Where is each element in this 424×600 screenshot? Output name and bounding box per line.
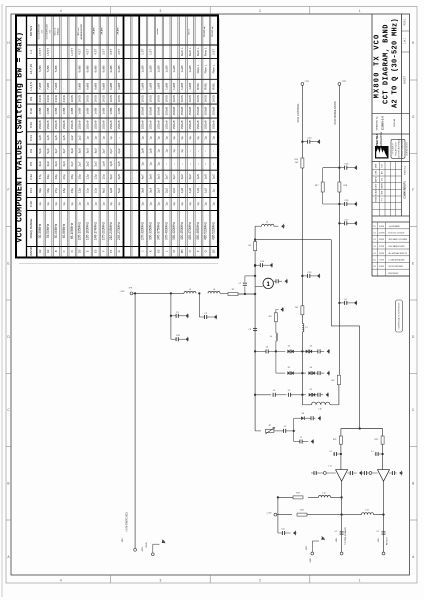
svg-text:S.W: S.W <box>382 164 384 168</box>
svg-text:1K05: 1K05 <box>172 95 176 103</box>
svg-text:Rem L: Rem L <box>188 47 192 56</box>
svg-text:R68L: R68L <box>204 82 208 90</box>
svg-text:1p2: 1p2 <box>78 135 82 140</box>
svg-text:270-320MHz: 270-320MHz <box>141 222 145 240</box>
svg-text:485-520MHz: 485-520MHz <box>204 222 208 240</box>
svg-text:ISSUE: ISSUE <box>376 196 378 202</box>
svg-text:L3,4,5: L3,4,5 <box>29 82 33 91</box>
svg-text:1p: 1p <box>62 202 66 206</box>
svg-text:4p7: 4p7 <box>62 148 66 153</box>
svg-text:15Dx8: 15Dx8 <box>149 120 153 129</box>
svg-text:1u5B: 1u5B <box>156 83 160 90</box>
svg-text:--: -- <box>196 150 200 152</box>
svg-text:Rem L: Rem L <box>204 64 208 73</box>
svg-text:1p5: 1p5 <box>204 174 208 179</box>
svg-text:L1 VALUES ADDED: L1 VALUES ADDED <box>389 259 406 262</box>
svg-text:39p: 39p <box>38 188 42 193</box>
svg-text:M.L: M.L <box>382 178 384 181</box>
svg-text:Rem L: Rem L <box>196 47 200 56</box>
svg-text:C6: C6 <box>273 390 275 392</box>
svg-text:1n5B: 1n5B <box>54 108 58 115</box>
svg-text:D5: D5 <box>78 249 82 253</box>
svg-text:ALUMINIUM BKT: ALUMINIUM BKT <box>80 23 83 39</box>
svg-text:1p2: 1p2 <box>70 135 74 140</box>
svg-text:RF OUT: RF OUT <box>387 536 389 545</box>
svg-text:C18: C18 <box>29 201 33 207</box>
svg-text:Q5: Q5 <box>212 249 216 253</box>
svg-text:3p3: 3p3 <box>149 188 153 193</box>
svg-text:1p2: 1p2 <box>204 188 208 193</box>
svg-text:C3590 REV.P1: C3590 REV.P1 <box>402 181 406 199</box>
svg-text:1u2B: 1u2B <box>180 65 184 72</box>
svg-text:1n5B: 1n5B <box>101 108 105 115</box>
svg-text:SPECTRA: SPECTRA <box>375 133 379 148</box>
svg-text:VCO CONTROL: VCO CONTROL <box>296 103 300 123</box>
svg-text:2p2: 2p2 <box>86 161 90 166</box>
svg-text:D4: D4 <box>310 367 312 369</box>
svg-text:1p8: 1p8 <box>109 161 113 166</box>
svg-text:22p: 22p <box>62 174 66 179</box>
svg-text:3p3: 3p3 <box>54 161 58 166</box>
svg-text:2/9/98: 2/9/98 <box>379 253 384 255</box>
svg-text:150xB: 150xB <box>212 107 216 116</box>
svg-text:15Dx8: 15Dx8 <box>204 120 208 129</box>
svg-text:L1: L1 <box>29 50 33 54</box>
svg-text:1p5: 1p5 <box>149 148 153 153</box>
svg-text:DRN: DRN <box>376 163 378 168</box>
svg-text:15Dx8: 15Dx8 <box>141 120 145 129</box>
svg-text:2p7: 2p7 <box>70 161 74 166</box>
svg-text:--: -- <box>204 150 208 152</box>
svg-text:6u8B: 6u8B <box>117 65 121 72</box>
svg-text:3p9: 3p9 <box>46 161 50 166</box>
svg-text:D3: D3 <box>288 367 290 369</box>
svg-text:1p5: 1p5 <box>54 135 58 140</box>
svg-text:REV 1: REV 1 <box>404 18 407 26</box>
svg-text:1p: 1p <box>86 136 90 140</box>
svg-text:30-39MHz: 30-39MHz <box>38 223 42 238</box>
svg-text:7u5B: 7u5B <box>38 83 42 90</box>
svg-text:1p: 1p <box>188 136 192 140</box>
svg-text:C13=3p9 R11,R1: C13=3p9 R11,R1 <box>47 23 49 39</box>
svg-text:Rem L: Rem L <box>196 64 200 73</box>
svg-text:33p: 33p <box>46 188 50 193</box>
svg-text:--: -- <box>164 163 168 165</box>
svg-text:1n5B: 1n5B <box>70 108 74 115</box>
svg-text:450-485MHz: 450-485MHz <box>196 222 200 240</box>
svg-text:NOTES: NOTES <box>29 26 33 36</box>
svg-text:39-50MHz: 39-50MHz <box>46 223 50 238</box>
svg-text:2p7: 2p7 <box>156 188 160 193</box>
svg-text:#P51: #P51 <box>378 538 380 542</box>
svg-text:15Dx8: 15Dx8 <box>78 120 82 129</box>
svg-text:10p: 10p <box>93 188 97 193</box>
svg-text:1n5B: 1n5B <box>109 108 113 115</box>
svg-text:2p7: 2p7 <box>109 148 113 153</box>
svg-text:66-88MHz: 66-88MHz <box>62 223 66 238</box>
svg-text:6u8B: 6u8B <box>86 83 90 90</box>
svg-text:3p9: 3p9 <box>141 188 145 193</box>
svg-text:425-470MHz: 425-470MHz <box>188 222 192 240</box>
svg-text:1p: 1p <box>156 162 160 166</box>
svg-text:--: -- <box>188 150 192 152</box>
svg-text:Rem L: Rem L <box>204 47 208 56</box>
svg-text:1K05: 1K05 <box>212 95 216 103</box>
svg-text:0.1: 0.1 <box>329 451 332 453</box>
svg-text:1K05: 1K05 <box>101 95 105 103</box>
svg-text:1p: 1p <box>109 136 113 140</box>
svg-text:2p2: 2p2 <box>164 188 168 193</box>
svg-text:3p9: 3p9 <box>38 161 42 166</box>
svg-text:4.5T: 4.5T <box>93 49 97 55</box>
svg-text:L5.5T: L5.5T <box>46 48 50 56</box>
svg-text:1n5B: 1n5B <box>117 108 121 115</box>
svg-text:135-160MHz: 135-160MHz <box>86 222 90 240</box>
svg-text:C5: C5 <box>29 162 33 166</box>
svg-text:R11,R5 adj: R11,R5 adj <box>204 26 206 36</box>
svg-text:GND: GND <box>146 542 148 547</box>
svg-text:3p9: 3p9 <box>70 148 74 153</box>
svg-text:300-335MHz: 300-335MHz <box>149 222 153 240</box>
svg-text:1p: 1p <box>196 136 200 140</box>
svg-text:1p: 1p <box>156 149 160 153</box>
svg-text:0.1: 0.1 <box>377 531 380 533</box>
svg-text:1u5B: 1u5B <box>141 83 145 90</box>
svg-text:88-108MHz: 88-108MHz <box>70 222 74 239</box>
svg-text:6u8B: 6u8B <box>109 65 113 72</box>
svg-text:1n5B: 1n5B <box>46 108 50 115</box>
svg-text:148-174MHz: 148-174MHz <box>93 222 97 240</box>
svg-text:D1: D1 <box>288 346 290 348</box>
svg-text:210R: 210R <box>46 94 50 102</box>
svg-text:15Dx8: 15Dx8 <box>101 120 105 129</box>
svg-text:15p: 15p <box>70 188 74 193</box>
svg-text:6u8B: 6u8B <box>109 83 113 90</box>
svg-text:15Dx8: 15Dx8 <box>212 120 216 129</box>
svg-text:3p9: 3p9 <box>78 148 82 153</box>
svg-text:1st RELEASE: 1st RELEASE <box>389 225 401 228</box>
svg-text:12p: 12p <box>78 188 82 193</box>
svg-text:1u5B: 1u5B <box>188 83 192 90</box>
svg-text:1p: 1p <box>46 202 50 206</box>
svg-text:8p2: 8p2 <box>101 188 105 193</box>
svg-text:6u8B: 6u8B <box>117 83 121 90</box>
svg-text:1u5B: 1u5B <box>149 83 153 90</box>
svg-text:1p: 1p <box>109 202 113 206</box>
svg-text:1p: 1p <box>172 149 176 153</box>
svg-text:G: G <box>117 250 121 252</box>
svg-text:3: 3 <box>160 9 162 13</box>
svg-text:1p: 1p <box>180 136 184 140</box>
svg-text:Same as: Same as <box>54 28 56 36</box>
svg-text:#P41: #P41 <box>336 538 338 542</box>
svg-text:--: -- <box>172 163 176 165</box>
svg-text:3.5T: 3.5T <box>117 49 121 55</box>
svg-text:210-245MHz: 210-245MHz <box>109 222 113 240</box>
svg-text:1p: 1p <box>86 202 90 206</box>
svg-text:+7.4V: +7.4V <box>266 513 272 515</box>
svg-text:1p2: 1p2 <box>212 174 216 179</box>
svg-text:C22: C22 <box>281 528 284 530</box>
svg-text:1p: 1p <box>93 136 97 140</box>
svg-text:R68L: R68L <box>196 82 200 90</box>
svg-text:C5: C5 <box>300 437 302 439</box>
svg-text:P: P <box>196 250 200 252</box>
svg-text:ECN 14 4 14 35309: ECN 14 4 14 35309 <box>389 233 405 235</box>
svg-text:--: -- <box>196 163 200 165</box>
svg-text:4p7: 4p7 <box>54 148 58 153</box>
svg-text:1n5B: 1n5B <box>93 108 97 115</box>
svg-text:1p: 1p <box>180 149 184 153</box>
svg-text:1p: 1p <box>212 136 216 140</box>
svg-text:1u2B: 1u2B <box>188 65 192 72</box>
svg-text:3/6/98: 3/6/98 <box>379 239 384 241</box>
svg-text:DRAWING No.: DRAWING No. <box>376 115 379 130</box>
svg-text:F5: F5 <box>109 249 113 253</box>
svg-text:1p: 1p <box>164 136 168 140</box>
svg-text:1p: 1p <box>38 202 42 206</box>
svg-text:2p7: 2p7 <box>78 161 82 166</box>
svg-text:+7.4V SWITCHED: +7.4V SWITCHED <box>126 512 129 532</box>
svg-text:1p5: 1p5 <box>62 135 66 140</box>
svg-text:1p5: 1p5 <box>196 188 200 193</box>
svg-text:1p5: 1p5 <box>117 161 121 166</box>
svg-text:A2 TO Q (30-520 MHz): A2 TO Q (30-520 MHz) <box>391 18 399 108</box>
svg-text:1p: 1p <box>78 202 82 206</box>
svg-text:C14: C14 <box>29 135 33 141</box>
svg-text:15Dx8: 15Dx8 <box>86 120 90 129</box>
svg-text:1p8: 1p8 <box>180 188 184 193</box>
svg-text:Rem L: Rem L <box>188 28 190 35</box>
svg-text:33p: 33p <box>54 174 58 179</box>
svg-text:E: E <box>7 262 9 266</box>
svg-text:--: -- <box>117 137 121 139</box>
svg-text:MX800 TX VCO: MX800 TX VCO <box>373 34 381 99</box>
svg-text:C13=3p9 R11,R1: C13=3p9 R11,R1 <box>39 23 41 39</box>
svg-text:C3590-1-0: C3590-1-0 <box>381 116 385 131</box>
svg-text:1K05: 1K05 <box>141 95 145 103</box>
svg-text:1K05: 1K05 <box>196 95 200 103</box>
svg-text:1K05: 1K05 <box>109 95 113 103</box>
svg-text:B: B <box>7 482 9 486</box>
svg-text:4: 4 <box>60 579 62 583</box>
svg-text:#TP2: #TP2 <box>342 81 347 83</box>
svg-text:A3: A3 <box>46 249 50 253</box>
svg-text:--: -- <box>212 150 216 152</box>
svg-text:1p: 1p <box>212 189 216 193</box>
svg-text:4: 4 <box>60 9 62 13</box>
svg-text:395-420MHz: 395-420MHz <box>172 222 176 240</box>
svg-text:2.5T: 2.5T <box>212 49 216 55</box>
svg-text:5p6: 5p6 <box>38 148 42 153</box>
svg-text:SIZE A4: SIZE A4 <box>393 118 396 127</box>
svg-text:50-66MHz: 50-66MHz <box>54 223 58 238</box>
svg-text:3.5T: 3.5T <box>109 49 113 55</box>
svg-text:1: 1 <box>359 579 361 583</box>
svg-text:1K05: 1K05 <box>204 95 208 103</box>
svg-text:C19: C19 <box>29 108 33 114</box>
svg-text:1p: 1p <box>117 202 121 206</box>
svg-text:B Band: B Band <box>57 28 59 35</box>
svg-text:6p8: 6p8 <box>117 174 121 179</box>
svg-text:3.5T: 3.5T <box>101 49 105 55</box>
svg-text:150xB: 150xB <box>172 107 176 116</box>
svg-text:7/1/99: 7/1/99 <box>379 260 384 262</box>
svg-text:MIDLAND WEST: MIDLAND WEST <box>395 141 398 156</box>
svg-text:1p: 1p <box>149 162 153 166</box>
svg-text:--/PLATE: --/PLATE <box>101 27 104 36</box>
svg-text:12p: 12p <box>86 174 90 179</box>
svg-text:12p: 12p <box>93 174 97 179</box>
svg-text:R3: R3 <box>29 96 33 100</box>
svg-text:4/4/98: 4/4/98 <box>382 183 384 188</box>
svg-text:K: K <box>149 250 153 252</box>
svg-text:6u8B: 6u8B <box>93 65 97 72</box>
svg-text:15Dx8: 15Dx8 <box>70 120 74 129</box>
svg-text:1p: 1p <box>188 202 192 206</box>
svg-text:15Dx8: 15Dx8 <box>188 120 192 129</box>
svg-text:10p: 10p <box>101 174 105 179</box>
svg-text:1n5B: 1n5B <box>78 108 82 115</box>
svg-text:WESTERN AUSTRALIA: WESTERN AUSTRALIA <box>398 138 401 158</box>
svg-text:3: 3 <box>160 579 162 583</box>
svg-text:TX PRE-SCALER: TX PRE-SCALER <box>344 527 347 545</box>
svg-text:3p3: 3p3 <box>156 174 160 179</box>
svg-text:B: B <box>54 250 58 252</box>
svg-text:1p8: 1p8 <box>46 135 50 140</box>
svg-text:6u8B: 6u8B <box>86 65 90 72</box>
svg-text:6u8B: 6u8B <box>93 83 97 90</box>
svg-text:345-375MHz: 345-375MHz <box>156 222 160 240</box>
svg-text:1p8: 1p8 <box>38 135 42 140</box>
svg-text:1p8: 1p8 <box>141 148 145 153</box>
svg-text:1p: 1p <box>149 136 153 140</box>
svg-text:1p: 1p <box>204 202 208 206</box>
svg-text:150xB: 150xB <box>196 107 200 116</box>
svg-text:C9: C9 <box>29 149 33 153</box>
svg-text:--/PLATE: --/PLATE <box>116 27 119 36</box>
svg-text:18p: 18p <box>70 174 74 179</box>
svg-text:210R: 210R <box>54 94 58 102</box>
svg-text:P1: P1 <box>382 198 384 200</box>
svg-text:495-520MHz: 495-520MHz <box>212 222 216 240</box>
svg-text:150xB: 150xB <box>164 107 168 116</box>
svg-text:1K05: 1K05 <box>164 95 168 103</box>
svg-text:COMMERCIAL IN CONFIDENCE: COMMERCIAL IN CONFIDENCE <box>397 302 400 330</box>
svg-text:12/5/98: 12/5/98 <box>379 233 385 235</box>
svg-text:L5.5T: L5.5T <box>38 48 42 56</box>
svg-text:8p2: 8p2 <box>109 174 113 179</box>
svg-text:1p: 1p <box>164 202 168 206</box>
svg-text:15Dx8: 15Dx8 <box>54 120 58 129</box>
svg-text:L6,7,10: L6,7,10 <box>29 64 33 74</box>
svg-text:1.5T: 1.5T <box>141 49 145 55</box>
svg-text:E: E <box>86 250 90 252</box>
svg-text:1p: 1p <box>212 202 216 206</box>
svg-text:F: F <box>101 250 105 252</box>
svg-text:C12: C12 <box>29 174 33 180</box>
svg-text:6p8: 6p8 <box>109 188 113 193</box>
svg-text:--/PLATE: --/PLATE <box>93 27 96 36</box>
svg-text:0.1: 0.1 <box>335 531 338 533</box>
svg-text:1u5B: 1u5B <box>164 83 168 90</box>
svg-text:E: E <box>412 262 414 266</box>
svg-text:15Dx8: 15Dx8 <box>46 120 50 129</box>
svg-text:4p7: 4p7 <box>141 174 145 179</box>
svg-text:1K05: 1K05 <box>156 95 160 103</box>
svg-text:+7.4V: +7.4V <box>120 291 126 293</box>
svg-text:1 of 1: 1 of 1 <box>404 37 407 44</box>
svg-text:APPD: APPD <box>375 176 378 182</box>
svg-text:9/7/98: 9/7/98 <box>379 246 384 248</box>
svg-text:1K05: 1K05 <box>70 95 74 103</box>
svg-text:1u2B: 1u2B <box>172 65 176 72</box>
svg-text:15Dx8: 15Dx8 <box>164 120 168 129</box>
svg-text:150xB: 150xB <box>180 107 184 116</box>
svg-text:7u5B: 7u5B <box>46 65 50 72</box>
svg-text:15Dx8: 15Dx8 <box>109 120 113 129</box>
svg-text:1p: 1p <box>164 149 168 153</box>
svg-text:K5: K5 <box>156 249 160 253</box>
svg-text:1p8: 1p8 <box>196 174 200 179</box>
svg-text:C: C <box>62 250 66 252</box>
svg-text:D6: D6 <box>302 413 304 415</box>
svg-text:ACN 009 440 077: ACN 009 440 077 <box>405 142 408 155</box>
svg-text:1K05: 1K05 <box>117 95 121 103</box>
svg-text:1p: 1p <box>172 136 176 140</box>
svg-text:#P9: #P9 <box>129 288 132 290</box>
svg-text:1p: 1p <box>196 202 200 206</box>
svg-text:2p2: 2p2 <box>180 174 184 179</box>
svg-text:9/3/99: 9/3/99 <box>379 266 384 268</box>
svg-text:39p: 39p <box>46 174 50 179</box>
svg-text:1p: 1p <box>70 202 74 206</box>
svg-text:R68L: R68L <box>212 82 216 90</box>
svg-text:175-210MHz: 175-210MHz <box>101 222 105 240</box>
svg-text:1n5B: 1n5B <box>62 108 66 115</box>
svg-text:105-135MHz: 105-135MHz <box>78 222 82 240</box>
svg-text:M5: M5 <box>180 249 184 253</box>
svg-text:1u2B: 1u2B <box>141 65 145 72</box>
svg-text:3p9: 3p9 <box>149 174 153 179</box>
svg-text:1K05: 1K05 <box>188 95 192 103</box>
svg-text:1u5B: 1u5B <box>172 83 176 90</box>
svg-text:1: 1 <box>359 9 361 13</box>
svg-text:15Dx8: 15Dx8 <box>93 120 97 129</box>
svg-text:5p6: 5p6 <box>46 148 50 153</box>
svg-text:1p: 1p <box>172 202 176 206</box>
svg-text:1n5B: 1n5B <box>86 108 90 115</box>
svg-text:Rem L: Rem L <box>180 47 184 56</box>
svg-text:1u2B: 1u2B <box>156 65 160 72</box>
svg-text:150xB: 150xB <box>204 107 208 116</box>
svg-text:D5: D5 <box>310 389 312 391</box>
svg-text:4.5T: 4.5T <box>78 49 82 55</box>
svg-text:B: B <box>412 482 414 486</box>
svg-text:15Dx8: 15Dx8 <box>172 120 176 129</box>
svg-text:#P32: #P32 <box>306 546 308 550</box>
svg-text:D: D <box>70 250 74 252</box>
svg-text:370-400MHz: 370-400MHz <box>164 222 168 240</box>
svg-text:R11,R5 adj: R11,R5 adj <box>212 26 214 36</box>
svg-text:1K05: 1K05 <box>180 95 184 103</box>
svg-text:150xB: 150xB <box>156 107 160 116</box>
svg-text:1p: 1p <box>93 202 97 206</box>
svg-text:4.5T: 4.5T <box>86 49 90 55</box>
svg-text:DWG No.: DWG No. <box>404 165 406 175</box>
svg-text:2p7: 2p7 <box>172 174 176 179</box>
svg-text:C16: C16 <box>29 122 33 128</box>
